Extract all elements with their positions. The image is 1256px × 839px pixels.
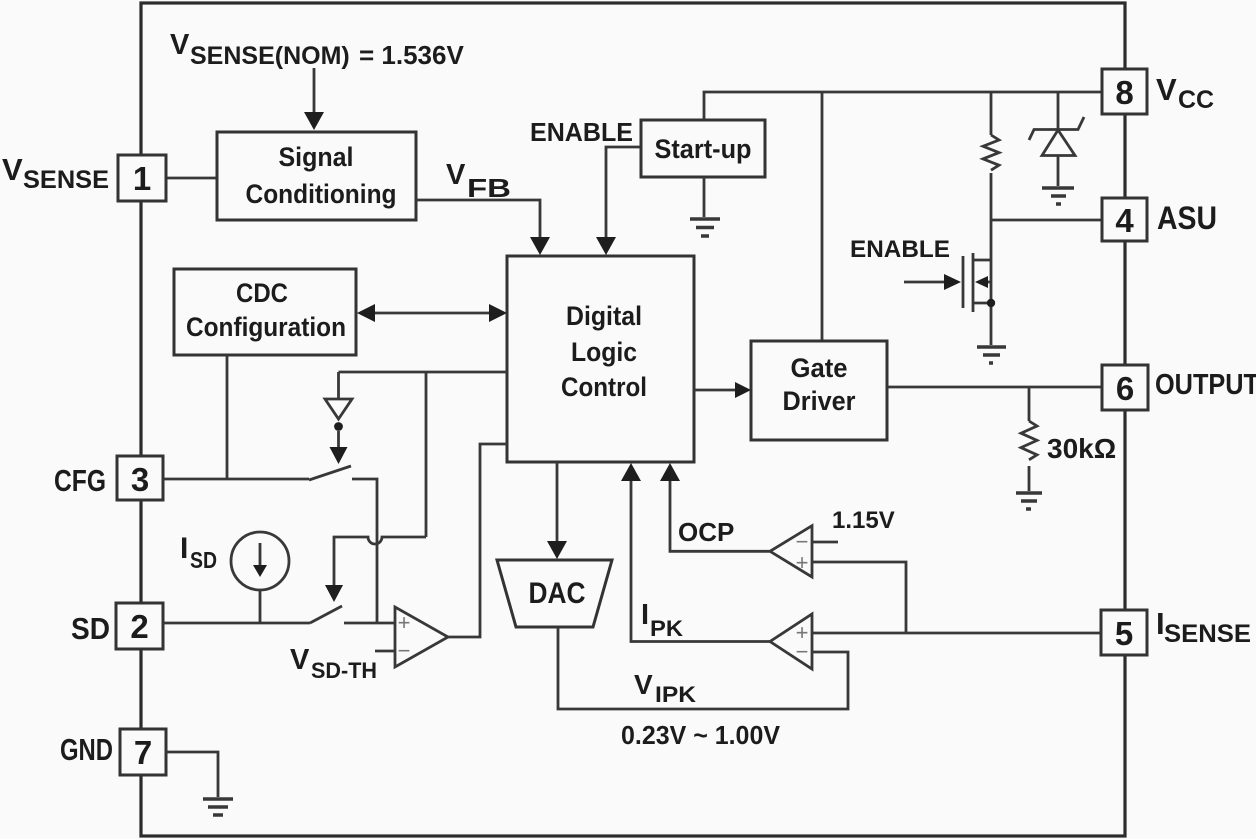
svg-text:OUTPUT: OUTPUT: [1155, 369, 1256, 401]
block Gate Driver: [751, 341, 887, 440]
inverter stem: [337, 372, 340, 399]
wire pin 7 to ground: [166, 752, 218, 797]
svg-text:Digital: Digital: [566, 301, 642, 331]
zener diode stem top: [1057, 92, 1060, 130]
arrow DLC to DAC: [556, 462, 559, 544]
IC boundary: [141, 3, 1125, 836]
block Start-up: [641, 120, 765, 177]
wire CFG net: [163, 478, 309, 481]
pin 3 box: [117, 456, 163, 500]
wire SD net: [163, 622, 310, 625]
svg-text:SD: SD: [190, 547, 217, 573]
svg-text:Driver: Driver: [783, 386, 856, 416]
arrow VSENSE(NOM) into Signal Conditioning: [313, 68, 316, 114]
svg-text:CDC: CDC: [236, 278, 288, 308]
svg-text:CFG: CFG: [54, 463, 106, 498]
wire ISENSE branch to OCP: [812, 562, 906, 633]
svg-text:GND: GND: [60, 732, 113, 767]
svg-text:IPK: IPK: [655, 682, 696, 707]
svg-text:5: 5: [1115, 615, 1133, 652]
current source ISD: [231, 532, 289, 590]
zener diode triangle: [1042, 130, 1075, 156]
wire pin1 to Signal Conditioning: [166, 177, 217, 180]
svg-text:= 1.536V: = 1.536V: [359, 40, 464, 70]
svg-text:V: V: [634, 669, 653, 700]
zener diode cathode bar: [1029, 117, 1084, 140]
ground below mosfet: [977, 347, 1006, 363]
ground below 30k resistor: [1016, 493, 1042, 509]
svg-text:I: I: [180, 532, 188, 565]
ground below zener: [1042, 188, 1074, 204]
wire IPK comparator output to DLC: [631, 479, 770, 642]
pin 2 box: [116, 603, 163, 649]
wire VCC rail to Gate Driver top: [821, 92, 824, 341]
svg-text:OCP: OCP: [678, 517, 734, 547]
ground Start-up: [690, 219, 720, 236]
svg-text:SENSE: SENSE: [1164, 620, 1251, 648]
wire Start-up bottom: [703, 177, 706, 217]
control net from inverter to DLC: [339, 371, 508, 374]
resistor VCC-ASU zigzag: [983, 135, 999, 170]
wire OCP comparator output to DLC: [670, 479, 770, 551]
current source stem: [259, 590, 262, 623]
svg-text:DAC: DAC: [529, 577, 586, 610]
svg-text:8: 8: [1115, 74, 1133, 111]
pin 1 box: [118, 155, 166, 201]
svg-text:ENABLE: ENABLE: [530, 117, 633, 147]
wire ISENSE net: [812, 632, 1101, 635]
svg-text:PK: PK: [650, 616, 683, 641]
wire S1 to down branch: [352, 479, 377, 623]
wire ENABLE to Start-up and DLC: [606, 147, 641, 240]
svg-text:1: 1: [133, 160, 151, 197]
wire 1.15V stub: [812, 541, 838, 544]
svg-text:Start-up: Start-up: [655, 134, 752, 164]
resistor 30kOhm leads: [1028, 387, 1031, 491]
wire ASU node to pin 4: [991, 219, 1102, 222]
svg-text:+: +: [796, 550, 809, 575]
arrowhead VFB into DLC: [530, 237, 550, 255]
pin 5 box: [1101, 610, 1147, 655]
arrowhead ENABLE into DLC: [596, 237, 616, 255]
svg-text:I: I: [641, 599, 649, 631]
comparator SD: [395, 607, 448, 667]
svg-text:ENABLE: ENABLE: [850, 236, 950, 263]
pin 4 box: [1102, 198, 1147, 241]
svg-text:6: 6: [1116, 370, 1134, 407]
svg-text:ASU: ASU: [1157, 200, 1217, 236]
block CDC Configuration: [174, 269, 356, 355]
svg-text:SD: SD: [71, 611, 110, 646]
pin 8 box: [1102, 69, 1147, 114]
wire S2 to comparator: [344, 622, 395, 625]
arrow DLC to Gate Driver: [694, 389, 737, 392]
svg-text:V: V: [1156, 72, 1177, 107]
svg-text:+: +: [398, 610, 411, 635]
zener diode stem bottom: [1057, 156, 1060, 187]
svg-text:V: V: [2, 152, 23, 187]
svg-text:Logic: Logic: [571, 337, 637, 367]
control branch horizontal with hop: [334, 537, 426, 589]
pin 6 box: [1102, 365, 1148, 410]
svg-text:SENSE: SENSE: [23, 166, 109, 194]
wire CDC bottom to CFG net: [226, 355, 229, 479]
mosfet gate arrow: [904, 281, 946, 284]
pin 7 box: [120, 729, 166, 775]
switch S2 blade: [310, 606, 342, 623]
svg-text:V: V: [170, 29, 190, 61]
svg-text:Configuration: Configuration: [186, 312, 346, 342]
block Digital Logic Control: [507, 256, 694, 462]
svg-text:7: 7: [134, 734, 152, 771]
resistor 30kOhm zigzag: [1021, 421, 1037, 460]
bidirectional arrow CDC-DLC: [371, 312, 493, 315]
svg-text:3: 3: [131, 461, 149, 498]
resistor VCC to ASU leads: [990, 92, 993, 260]
svg-text:Conditioning: Conditioning: [246, 179, 397, 209]
arrowhead onto switch S2: [325, 585, 343, 602]
inverter output dot: [334, 422, 343, 431]
svg-text:Control: Control: [561, 372, 647, 402]
ground GND pin: [203, 799, 233, 815]
svg-text:V: V: [446, 159, 466, 191]
switch S1 blade: [309, 466, 351, 480]
arrow onto switch S1: [337, 431, 340, 449]
svg-text:30kΩ: 30kΩ: [1047, 433, 1116, 464]
svg-text:V: V: [290, 644, 310, 676]
wire VCC rail (y=92): [704, 92, 1102, 120]
wire VFB to Digital Logic Control: [416, 200, 540, 240]
wire SD comparator output to DLC: [448, 444, 507, 637]
wire Gate Driver output to pin 6: [887, 386, 1102, 389]
inverter triangle: [325, 399, 352, 419]
svg-text:−: −: [398, 638, 411, 663]
mosfet Q1: [962, 256, 965, 308]
control branch down: [425, 372, 428, 537]
svg-text:0.23V ~ 1.00V: 0.23V ~ 1.00V: [621, 720, 781, 750]
svg-text:CC: CC: [1178, 86, 1214, 114]
svg-text:SENSE(NOM): SENSE(NOM): [190, 42, 350, 70]
svg-text:1.15V: 1.15V: [832, 507, 895, 534]
comparator OCP: [770, 526, 812, 577]
svg-text:Signal: Signal: [279, 142, 354, 172]
wire VSD-TH stub: [375, 650, 395, 653]
svg-text:2: 2: [130, 608, 148, 645]
wire DAC output to VIPK: [558, 627, 848, 709]
comparator IPK: [770, 614, 812, 669]
svg-text:FB: FB: [467, 173, 511, 203]
svg-text:SD-TH: SD-TH: [311, 658, 377, 683]
block Signal Conditioning: [217, 132, 416, 220]
svg-text:4: 4: [1115, 202, 1134, 239]
svg-text:Gate: Gate: [791, 353, 848, 383]
svg-text:−: −: [796, 639, 809, 664]
DAC: [497, 560, 612, 627]
